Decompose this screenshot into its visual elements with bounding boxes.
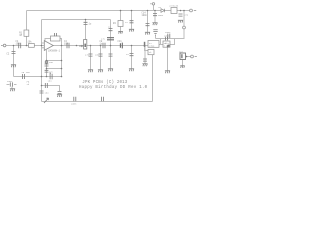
resistor R2 series box [29,44,35,48]
svg-text:10u: 10u [45,92,50,95]
input jack J1 [1,44,6,47]
capacitor C1 input series [19,43,21,48]
capacitor C28 series on lower row (electrolytic) [50,73,53,80]
resistor R1 bias (on x26 vertical) [24,30,29,36]
ground x120 under R4 [118,31,123,33]
ground x100 [98,70,103,72]
wire corner into box3 [145,46,149,51]
svg-text:47u: 47u [184,14,189,17]
ground power right [178,20,183,22]
svg-text:LM386N-1: LM386N-1 [48,49,61,52]
wire output pad drop [183,11,185,27]
resistor R4 on x120 drop [118,21,123,27]
svg-text:100n: 100n [164,35,170,38]
capacitor C9 on bus B corner x110 [109,29,113,31]
capacitor C19 power right [179,14,183,16]
ground branch [57,95,62,97]
capacitor C10 x110 lower [109,54,113,56]
svg-text:10u: 10u [95,54,100,57]
capacitor C12 on x131 bus drop [130,21,134,23]
svg-text:JPK PCBs (C) 2013: JPK PCBs (C) 2013 [82,80,128,85]
capacitor C4 output series [67,43,69,48]
wire bus B drop x85 [85,20,87,46]
wire vertical from bus A to input node [26,11,28,46]
wire V2 [61,46,63,77]
capacitor C23 branch end [58,91,62,93]
out terminal [191,55,197,58]
capacitor C7 drop x100 [99,54,103,56]
svg-text:Happy Birthday DD Rev 1.0: Happy Birthday DD Rev 1.0 [79,85,148,90]
svg-text:100u: 100u [7,80,13,83]
capacitor C24 on left rail y90 [40,91,44,93]
wire drop x90 [90,46,92,70]
wire bus A top [27,10,190,12]
svg-text:100n: 100n [165,31,171,34]
svg-text:100n: 100n [16,43,22,46]
IC U3 box2 [163,41,170,47]
svg-text:OUT: OUT [179,50,184,53]
capacitor C5 on x85 drop [84,22,88,24]
capacitor C26 bottom row [74,97,76,101]
ground out jack [180,66,185,68]
svg-text:104: 104 [64,43,69,46]
svg-text:2399: 2399 [149,44,155,47]
svg-text:100u: 100u [158,14,164,17]
capacitor C11 electrolytic on main row [120,43,122,49]
capacitor C14 on x147 bus drop [146,24,150,26]
svg-text:C11: C11 [118,40,123,43]
ground second mark power-left [153,30,157,35]
capacitor C8 main row series [103,43,105,48]
wire drop x100 [100,46,102,70]
wire branch y85 [42,86,60,92]
diode D1 [161,9,164,13]
capacitor C22 on branch y85 [45,83,47,88]
wire bus A drop x120 [120,11,122,32]
svg-text:47u: 47u [49,70,54,73]
wire inverting chain [46,50,48,77]
svg-text:47u: 47u [85,54,90,57]
wire main row [6,45,148,47]
capacitor C15 drop x145 [143,59,147,61]
capacitor C18 power left [153,14,157,16]
capacitor C27 bottom row right [102,97,104,101]
wire bus B corner drop x110 [110,20,112,69]
svg-text:100n: 100n [142,14,148,17]
resistor R3 feedback box [51,36,61,41]
capacitor C29 series on lower-left row [22,74,24,79]
capacitor C16 above box2 [165,37,167,41]
ground x147 [145,32,150,34]
connector bar P1 on main row [144,42,146,47]
svg-text:LM78L05: LM78L05 [169,5,179,8]
svg-text:47u: 47u [101,38,106,41]
DC terminal [190,9,197,12]
ground IC drop x167 [165,71,170,73]
capacitor C17 over switch row [168,34,170,39]
capacitor C9b electrolytic on x110 column [107,38,114,40]
ground x90 [88,70,93,72]
wire right rail [152,55,154,102]
ground x145 [142,64,147,66]
potentiometer VR1 delay [84,40,87,50]
switch pad circle P2 [183,26,186,29]
svg-text:100n: 100n [71,103,77,106]
capacitor C25 bottom-left [10,82,12,86]
wire out jack gnd [182,60,184,66]
wire vertical from bus B to node at main row [41,20,43,46]
wire box2 to loop [170,44,175,46]
junction dots [13,10,188,87]
wire bus B [42,19,111,21]
wire battery stub [153,5,155,11]
capacitor C6 drop x90 [89,54,93,56]
wire power-left chain [154,11,156,23]
ground power left [152,23,157,25]
capacitor C13 x131 lower drop [130,54,134,56]
wire bottom-left cap stub [7,85,17,89]
ground x131 lower [129,69,134,71]
wire IC ground drop [167,47,169,71]
capacitor C20 on inverting chain (electrolytic) [45,61,49,66]
wire feedback left [45,39,51,44]
output coupling box4 [180,53,186,60]
junction dots lower row [41,60,63,78]
svg-text:10u: 10u [26,71,31,74]
wire input shunt [13,46,15,77]
wire lower-left row y76.5 [14,76,62,78]
wire out jack stub [186,56,191,58]
wire H2 [47,68,62,70]
wire feedback right [60,39,62,46]
svg-text:10u: 10u [48,80,53,83]
wire pad to switch row [156,29,185,39]
regulator U5 box [171,8,177,14]
capacitor C21 inverting chain lower [45,70,49,72]
IC U2 box1 [148,41,159,48]
capacitor C3 over feedback [55,33,57,36]
wire drop x131 lower [131,46,133,69]
ground x110 [108,69,113,71]
ground x131 upper [129,29,134,31]
wire bus A drop x131 [131,11,133,30]
wire vertical down-left rail [41,46,43,102]
wire drop x145 [144,46,146,64]
svg-text:10k: 10k [28,41,33,44]
svg-text:10u: 10u [49,61,54,64]
wire H1 [47,60,62,62]
capacitor C2 input shunt [12,52,16,54]
battery clip terminal [150,3,155,5]
ground input shunt [11,65,16,67]
svg-text:4k7: 4k7 [165,42,170,45]
wire switch loop [161,39,175,45]
wire box1 to box2 [159,44,163,46]
wire bottom row [42,101,153,103]
wire arrow on bottom row [44,98,49,103]
IC U4 box3 [148,50,154,55]
op-amp U1 triangle [44,41,53,51]
wire bus A drop x147 [147,11,149,33]
ground bottom-left [10,89,15,91]
